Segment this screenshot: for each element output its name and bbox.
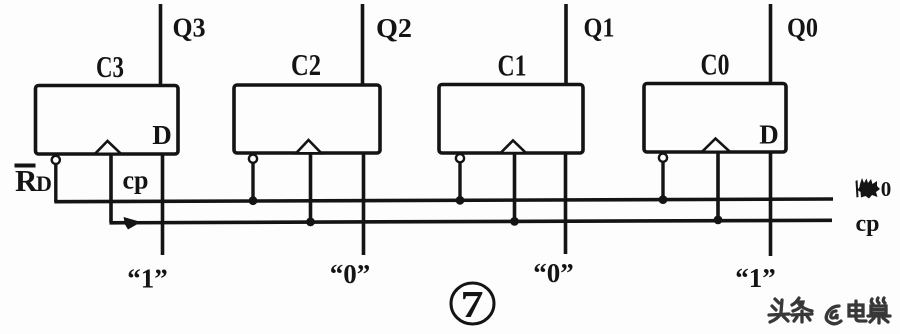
- constant label "1" (U4): [735, 263, 776, 293]
- svg-text:D: D: [759, 120, 779, 150]
- label C1: [498, 48, 527, 83]
- svg-text:“0”: “0”: [533, 258, 574, 288]
- svg-text:“1”: “1”: [127, 264, 168, 294]
- wire U2 clock drop: [309, 153, 313, 222]
- label D (U4 pin): [759, 120, 779, 150]
- svg-text:Q3: Q3: [173, 13, 206, 43]
- 巢: [871, 298, 885, 304]
- label Q1: [584, 13, 615, 43]
- junction U3 reset: [456, 196, 465, 205]
- clock triangle U4: [702, 139, 730, 152]
- wire RD bus: [54, 199, 833, 202]
- wire U4 reset drop: [661, 162, 664, 200]
- wire D input U1: [161, 154, 165, 256]
- watermark 头条@电巢: [769, 298, 890, 324]
- flip-flop U1 (C3) box: [36, 86, 179, 155]
- label C3: [96, 49, 124, 84]
- svg-text:0: 0: [881, 177, 892, 201]
- junction U4 clock: [714, 216, 723, 225]
- svg-text:C3: C3: [96, 49, 124, 84]
- wire Q0 output: [769, 4, 773, 84]
- wire cp bus: [110, 220, 833, 223]
- label D (U1 pin): [152, 120, 172, 150]
- clock triangle U1: [95, 141, 121, 154]
- 条: [792, 298, 799, 305]
- figure number 7 (circled): [451, 283, 494, 326]
- wire Q1 output: [564, 4, 568, 85]
- wire U3 reset drop: [458, 163, 461, 201]
- flip-flop U4 (C0) box: [644, 84, 786, 153]
- wire D input U3: [564, 153, 568, 254]
- wire U2 reset drop: [251, 163, 254, 201]
- svg-text:Q1: Q1: [584, 13, 615, 43]
- 电: [849, 305, 863, 316]
- 头: [775, 299, 779, 303]
- svg-text:cp: cp: [123, 166, 149, 195]
- svg-text:D: D: [36, 171, 52, 196]
- svg-text:R: R: [15, 163, 38, 198]
- flip-flop U3 (C1) box: [439, 85, 583, 154]
- wire Q3 output: [159, 4, 163, 86]
- reset bubble U3: [456, 154, 464, 162]
- svg-text:C0: C0: [701, 47, 730, 82]
- clock triangle U2: [296, 140, 322, 153]
- constant label "0" (U2): [330, 259, 371, 289]
- wire U1 clock drop: [109, 154, 113, 223]
- net label 0 (RD bus right end, smudged): [856, 177, 892, 201]
- label Q0: [787, 13, 818, 43]
- reset bubble U4: [659, 154, 667, 162]
- svg-text:7: 7: [461, 284, 484, 326]
- wire Q2 output: [361, 4, 365, 85]
- label Q3: [173, 13, 206, 43]
- wire D input U4: [769, 152, 773, 256]
- svg-text:D: D: [152, 120, 172, 150]
- label cp (U1): [123, 166, 149, 195]
- wire U1 reset drop: [54, 164, 57, 202]
- svg-text:Q2: Q2: [376, 13, 412, 43]
- junction U3 clock: [510, 217, 519, 226]
- cp bus arrowhead: [124, 217, 142, 230]
- junction U4 reset: [659, 195, 668, 204]
- label RD (reset input): [15, 163, 52, 198]
- @: [826, 306, 841, 324]
- constant label "1" (U1): [127, 264, 168, 294]
- net label cp (cp bus right end): [856, 211, 880, 237]
- wire D input U2: [362, 153, 366, 255]
- svg-text:Q0: Q0: [787, 13, 818, 43]
- svg-text:cp: cp: [856, 211, 880, 237]
- clock triangle U3: [501, 141, 527, 154]
- junction U2 reset: [249, 196, 258, 205]
- wire U4 clock drop: [716, 152, 720, 221]
- label Q2: [376, 13, 412, 43]
- label C2: [291, 47, 321, 82]
- svg-text:“1”: “1”: [735, 263, 776, 293]
- svg-text:C2: C2: [291, 47, 321, 82]
- wire U3 clock drop: [513, 153, 517, 222]
- reset bubble U1: [52, 156, 60, 164]
- label C0: [701, 47, 730, 82]
- svg-text:C1: C1: [498, 48, 527, 83]
- junction U2 clock: [306, 218, 315, 227]
- reset bubble U2: [249, 155, 257, 163]
- flip-flop U2 (C2) box: [234, 85, 380, 153]
- constant label "0" (U3): [533, 258, 574, 288]
- svg-text:“0”: “0”: [330, 259, 371, 289]
